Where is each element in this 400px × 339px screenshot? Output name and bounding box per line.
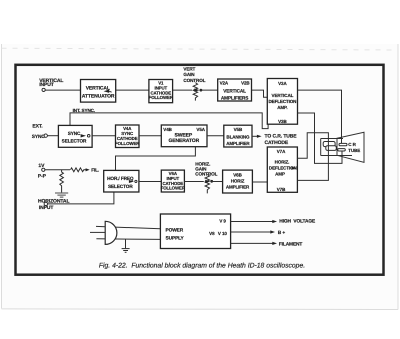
svg-text:BLANKING: BLANKING — [226, 135, 250, 140]
CRT neck outline — [321, 139, 352, 156]
svg-text:SUPPLY: SUPPLY — [165, 236, 184, 242]
block: hor freq selector — [104, 170, 139, 192]
potentiometer: vert gain control — [193, 83, 197, 101]
svg-text:TUBE: TUBE — [348, 148, 360, 153]
wire: V1 to vert gain pot — [173, 89, 192, 91]
wire: V3B lower wire segment over funnel — [341, 151, 343, 164]
svg-text:AMPLIFIER: AMPLIFIER — [226, 141, 250, 146]
svg-text:TO C.R. TUBE: TO C.R. TUBE — [265, 134, 298, 140]
label: to CR tube cathode — [265, 134, 298, 147]
wire: V3A top output to upper CRT plate — [298, 90, 342, 143]
border frame — [15, 65, 383, 275]
wire: V6B to V7A — [252, 181, 267, 183]
svg-text:V5A: V5A — [196, 127, 205, 132]
svg-text:INPUT: INPUT — [39, 205, 54, 211]
wire: sync selector to V4A — [92, 135, 115, 137]
svg-text:V2A: V2A — [220, 80, 229, 85]
svg-text:HORIZ.: HORIZ. — [275, 160, 290, 165]
svg-text:DEFLECTION: DEFLECTION — [269, 99, 297, 104]
wire: B+ output — [231, 231, 272, 233]
wire: int sync line with hook to V3 — [70, 113, 268, 129]
wire: V3B bottom output to lower CRT plate — [298, 113, 343, 163]
node: VERTICAL INPUT terminal — [39, 78, 63, 92]
svg-text:SYNC: SYNC — [68, 131, 81, 136]
label: vert gain control — [183, 67, 205, 83]
wire: filament output — [231, 242, 274, 244]
block: V5B blanking amplifier — [224, 125, 252, 147]
wire: V2A to V3A (jog) — [252, 90, 268, 97]
block: vertical attenuator — [81, 79, 116, 102]
wire: horizontal input to selector — [48, 192, 114, 204]
svg-text:EXT.: EXT. — [32, 124, 43, 130]
block: V7A V7B horiz deflection amp — [267, 147, 297, 192]
svg-text:Fig. 4-22. Functional block d: Fig. 4-22. Functional block diagram of t… — [99, 263, 305, 270]
node: HORIZONTAL INPUT terminal — [38, 198, 69, 211]
svg-text:VERTICAL: VERTICAL — [223, 89, 246, 94]
block: V2A V2B vertical amplifiers — [218, 79, 252, 101]
scan page area — [1, 44, 398, 310]
ground: below 1V resistor — [55, 193, 68, 197]
svg-text:VERTICAL: VERTICAL — [272, 93, 294, 98]
wire: V6A to horiz gain pot — [184, 180, 203, 182]
block: V4B V5A sweep generator — [161, 125, 207, 147]
svg-text:V3A: V3A — [278, 81, 287, 86]
svg-text:V2B: V2B — [241, 80, 250, 85]
wire: pot to V6B — [211, 181, 222, 183]
svg-text:ATTENUATOR: ATTENUATOR — [82, 93, 115, 99]
ground: power cord — [124, 239, 126, 248]
wire: 1V to resistor junction — [45, 169, 70, 171]
svg-text:C R: C R — [348, 142, 356, 147]
svg-text:V7A: V7A — [277, 149, 286, 154]
svg-text:B +: B + — [278, 230, 286, 236]
wire: V7A outputs to near plates — [297, 133, 328, 181]
wire: V4A to sweep generator — [139, 135, 161, 137]
wire: high voltage output — [231, 221, 274, 223]
svg-text:V6B: V6B — [233, 173, 242, 178]
wire: pot to V2A — [200, 89, 217, 91]
svg-text:P-P: P-P — [38, 173, 47, 179]
svg-text:HIGH VOLTAGE: HIGH VOLTAGE — [279, 219, 316, 225]
wire: blanking amp output arrow — [252, 135, 258, 137]
block: V3A V3B vertical deflection amp — [267, 79, 297, 125]
block: power supply — [160, 214, 230, 249]
svg-text:V7B: V7B — [277, 187, 286, 192]
resistor: vertical to ground — [60, 170, 64, 193]
svg-text:AMPLIFIERS: AMPLIFIERS — [221, 95, 248, 100]
svg-text:FOLLOWER: FOLLOWER — [149, 95, 174, 100]
CRT vertical deflection plates (bars) — [339, 143, 347, 145]
scan page edge lines — [1, 44, 398, 310]
svg-text:INT. SYNC.: INT. SYNC. — [73, 108, 95, 113]
svg-text:VERT: VERT — [183, 67, 195, 72]
node: 1V P-P terminal — [38, 163, 47, 179]
svg-text:V4B: V4B — [163, 127, 172, 132]
svg-text:SYNC: SYNC — [32, 134, 46, 140]
svg-text:AMP.: AMP. — [277, 105, 287, 110]
block: sync selector — [58, 125, 92, 147]
svg-text:SELECTOR: SELECTOR — [108, 184, 133, 189]
block: V4A sync cathode follower — [115, 125, 140, 148]
svg-text:CONTROL: CONTROL — [195, 171, 217, 176]
wire: sweep generator bottom to hor freq selector — [116, 147, 196, 171]
wire: attenuator to V1 — [116, 89, 149, 91]
resistor: horizontal to FIL — [70, 168, 86, 172]
block: V6A input cathode follower — [161, 170, 186, 192]
label: horiz gain control — [195, 161, 217, 176]
wire: plug cords to power supply — [96, 226, 160, 228]
svg-text:CATHODE: CATHODE — [265, 140, 289, 146]
svg-text:FILAMENT: FILAMENT — [279, 241, 303, 247]
svg-text:AMP: AMP — [275, 171, 285, 176]
svg-text:AMPLIFIER: AMPLIFIER — [226, 185, 250, 190]
svg-text:V8 V 10: V8 V 10 — [209, 231, 227, 236]
wire: vertical input to attenuator — [45, 89, 80, 91]
node: EXT SYNC terminal — [32, 124, 48, 140]
svg-text:V3B: V3B — [278, 119, 287, 124]
svg-text:V5B: V5B — [234, 127, 243, 132]
svg-text:FOLLOWER: FOLLOWER — [115, 141, 140, 146]
svg-text:V 9: V 9 — [219, 219, 226, 224]
svg-text:INPUT: INPUT — [39, 82, 54, 88]
block: V6B horiz amplifier — [223, 170, 253, 193]
svg-text:GAIN: GAIN — [183, 72, 195, 77]
block: V1 input cathode follower — [149, 79, 174, 102]
svg-text:CONTROL: CONTROL — [183, 78, 205, 83]
potentiometer: horiz gain control — [205, 174, 209, 193]
plug: AC line plug — [105, 221, 117, 244]
wire: sweep generator to blanking amp — [207, 135, 224, 137]
wire: selector to V6A — [139, 180, 161, 182]
svg-text:GENERATOR: GENERATOR — [169, 138, 200, 144]
wire: ext sync to sync selector — [48, 135, 59, 137]
CRT funnel — [337, 132, 364, 162]
wire: V3A upper wire segment over funnel — [341, 134, 343, 144]
svg-text:FOLLOWER: FOLLOWER — [161, 186, 186, 191]
svg-text:POWER: POWER — [165, 227, 183, 233]
svg-text:FIL.: FIL. — [91, 168, 99, 173]
svg-text:SELECTOR: SELECTOR — [62, 138, 87, 143]
CRT horizontal deflection plates (rounded) — [323, 142, 335, 147]
svg-text:HORIZ: HORIZ — [231, 179, 245, 184]
